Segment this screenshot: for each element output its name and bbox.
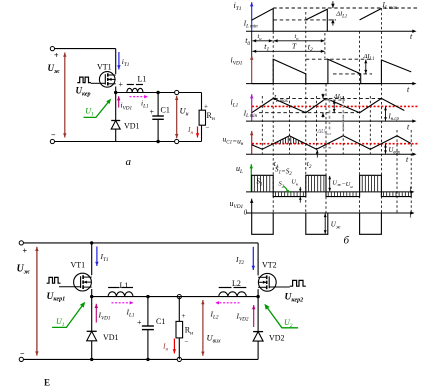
svg-text:Uн: Uн <box>292 180 298 187</box>
svg-text:+: + <box>54 51 59 60</box>
svg-text:ΔUвих: ΔUвих <box>317 129 332 136</box>
svg-text:б: б <box>344 235 350 247</box>
svg-text:−: − <box>20 349 25 358</box>
svg-text:−: − <box>185 338 189 346</box>
svg-text:uC1=uн: uC1=uн <box>223 135 244 148</box>
svg-text:−: − <box>51 131 56 140</box>
svg-text:+: + <box>137 318 142 327</box>
svg-text:а: а <box>126 156 132 168</box>
svg-text:C1: C1 <box>156 317 165 326</box>
svg-text:VD1: VD1 <box>124 122 140 131</box>
svg-text:+: + <box>150 108 155 117</box>
svg-text:+: + <box>182 312 186 320</box>
svg-text:+: + <box>23 247 28 256</box>
svg-text:VT1: VT1 <box>71 261 86 270</box>
svg-text:+: + <box>119 80 124 89</box>
svg-text:VD1: VD1 <box>103 333 119 342</box>
svg-text:−: − <box>206 124 210 132</box>
svg-text:L1: L1 <box>138 75 147 84</box>
svg-text:VD2: VD2 <box>269 334 285 343</box>
svg-text:0: 0 <box>244 209 248 217</box>
svg-text:C1: C1 <box>161 106 170 115</box>
svg-text:L1: L1 <box>120 281 129 290</box>
svg-text:VT1: VT1 <box>97 63 112 72</box>
svg-text:L2: L2 <box>232 279 241 288</box>
svg-text:E: E <box>44 378 50 388</box>
svg-text:VT2: VT2 <box>262 261 277 270</box>
svg-text:+: + <box>204 103 208 111</box>
